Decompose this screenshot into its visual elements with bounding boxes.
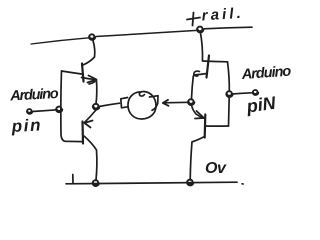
wire: left Arduino pin lead [33,110,57,112]
motor M: body circle [128,91,156,119]
transistor Q4: base bar [204,115,207,138]
wire: left base bus vertical [61,71,65,141]
wire: right bus to Q4 base [205,125,229,127]
transistor Q3: base bar [207,56,210,78]
wire: top rail right segment [204,27,252,29]
transistor Q1 (top-left NPN): collector lead from +rail [83,41,95,66]
svg-text:Arduino: Arduino [240,64,292,83]
transistor Q1: base bar [82,64,84,82]
label: + rail. [187,13,200,26]
transistor Q1: emitter with arrow [82,78,96,80]
wire: right base bus vertical upper [228,62,230,91]
transistor Q3: emitter with curled arrow [194,74,207,76]
wire: right Arduino pin lead [232,93,252,94]
transistor Q3 (top-right NPN): collector lead from +rail [201,33,203,61]
node: right pin end blob [253,90,259,95]
node: +rail junction left (knot) [89,34,95,40]
node: left Arduino pin junction (knot) [56,107,62,113]
transistor Q2: base bar [81,122,84,144]
wire: Q1 emitter down to motor-left node [95,81,98,105]
wire: top rail middle segment [96,30,197,36]
svg-text:piN: piN [244,93,277,117]
wire: right base bus vertical lower [228,97,231,126]
node: +rail junction right (knot) [197,27,203,33]
transistor Q3: base wire to right bus [203,60,228,63]
transistor Q2 (bottom-left PNP): emitter from motor-left node with arrow [85,110,97,123]
node: right Arduino pin junction (knot) [226,91,232,97]
node: left pin end blob [27,109,32,114]
wire: stray dot at right end of 0v rail [242,183,243,185]
wire: Q3 emitter down to motor-right node [192,76,194,99]
node: 0v rail junction right (knot) [187,180,193,186]
node: 0v rail junction left (knot) [93,180,99,186]
motor M: right terminal bracket [150,96,159,111]
motor M: left terminal bracket [121,98,128,108]
wire: motor right lead with left-pointing arrow [164,101,190,104]
transistor Q4: collector lead down to 0v rail [190,137,204,181]
wire: small stub tick on 0v rail [72,175,74,184]
svg-text:pin: pin [10,115,42,136]
wire: top rail left segment [31,38,89,44]
node: motor-left junction (knot) [93,104,99,110]
wire: left bus to Q2 base [65,140,82,142]
transistor Q4 (bottom-right PNP): emitter from motor-right node with arrow [192,105,205,119]
transistor Q2: collector lead down to 0v rail [84,136,97,180]
wire: Q1 base lead to left bus [62,71,82,74]
wire: 0v rail [66,182,237,184]
svg-text:Ov: Ov [205,160,227,177]
svg-text:rail.: rail. [201,5,244,25]
svg-text:Arduino: Arduino [9,86,59,105]
node: motor-right junction (knot) [188,99,194,105]
wire: motor left lead [99,103,120,106]
